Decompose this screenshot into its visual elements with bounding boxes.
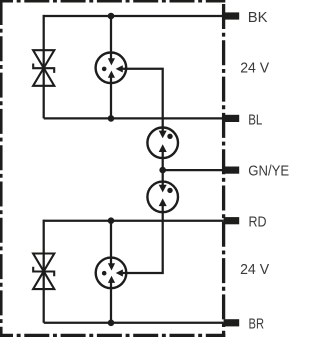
wire left branch lower (through diode V2) bbox=[43, 220, 45, 323]
wire top (BK net) bbox=[44, 15, 224, 17]
gas discharge tube F4 (3-electrode, lower) bbox=[96, 258, 127, 289]
gas discharge tube F2 (2-electrode, middle upper) bbox=[147, 128, 178, 159]
junction node (top wire / F1) bbox=[108, 13, 115, 20]
terminal BK bbox=[224, 12, 240, 19]
terminal GN/YE bbox=[224, 167, 240, 174]
wire BR net bbox=[44, 322, 224, 324]
wire F3 bottom to F4 right electrode bbox=[123, 206, 163, 273]
terminal BL bbox=[224, 115, 240, 122]
junction node (BL wire / F1) bbox=[108, 115, 115, 122]
svg-text:BK: BK bbox=[248, 9, 268, 26]
wire F2 bottom to F3 top (through GN/YE node) bbox=[162, 151, 164, 186]
wire F4 top electrode bbox=[110, 221, 112, 264]
wire RD net bbox=[44, 220, 224, 222]
wire GN/YE net bbox=[163, 169, 224, 171]
wire F1 right electrode to F2 top bbox=[123, 69, 163, 132]
junction node GN/YE (between F2 and F3) bbox=[159, 167, 166, 174]
svg-text:24 V: 24 V bbox=[240, 60, 269, 77]
svg-text:RD: RD bbox=[249, 213, 267, 230]
svg-text:BL: BL bbox=[248, 111, 262, 128]
terminal RD bbox=[224, 217, 240, 224]
junction node (BR wire / F4) bbox=[108, 320, 115, 327]
wire F4 bottom electrode bbox=[110, 282, 112, 323]
svg-text:BR: BR bbox=[249, 315, 265, 332]
wire left branch upper (through diode V1) bbox=[43, 15, 45, 119]
svg-text:24 V: 24 V bbox=[240, 261, 269, 278]
wire F1 top electrode bbox=[110, 16, 112, 59]
gas discharge tube F3 (2-electrode, middle lower) bbox=[147, 182, 178, 213]
junction node (RD wire / F4) bbox=[108, 217, 115, 224]
wire BL net bbox=[44, 117, 224, 119]
svg-text:GN/YE: GN/YE bbox=[248, 163, 289, 180]
wire F1 bottom electrode bbox=[110, 77, 112, 118]
suppressor diode V2 (bidirectional, lower) bbox=[33, 254, 54, 290]
suppressor diode V1 (bidirectional, upper) bbox=[33, 50, 54, 86]
enclosure boundary (dash-dot frame) bbox=[0, 0, 225, 337]
gas discharge tube F1 (3-electrode, upper) bbox=[96, 53, 127, 84]
terminal BR bbox=[224, 319, 240, 326]
